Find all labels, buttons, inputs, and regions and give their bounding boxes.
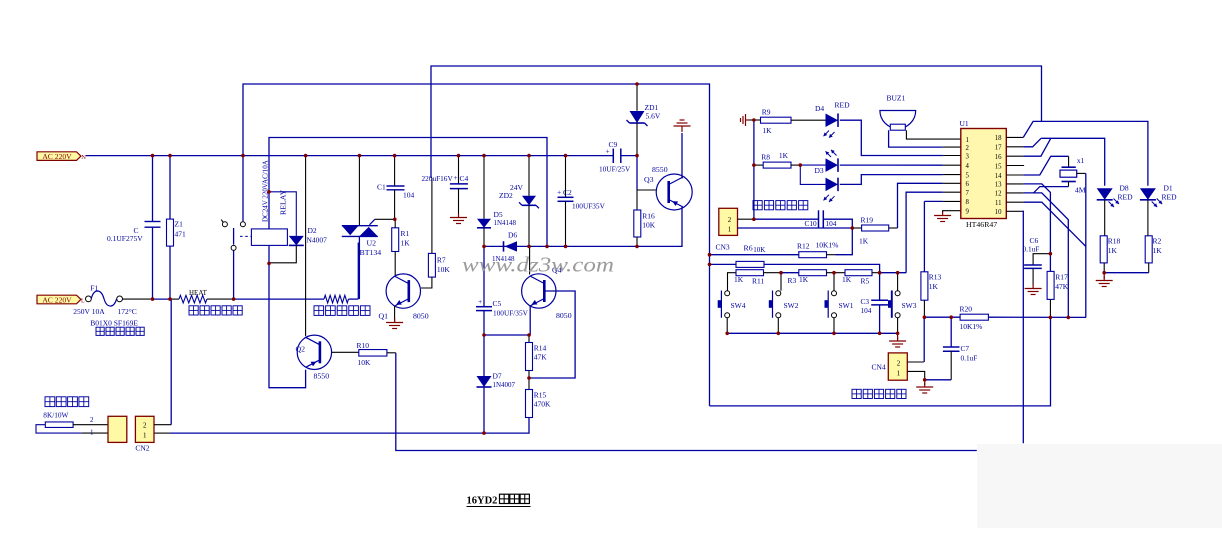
capacitor C6 0.1uF <box>1033 254 1050 265</box>
switch SW1 <box>832 291 837 296</box>
wire CN2 pin2 up to AC N <box>154 424 171 426</box>
svg-text:10K: 10K <box>642 220 656 229</box>
svg-text:4: 4 <box>966 163 970 170</box>
label install-on-pot-bottom <box>96 327 104 335</box>
wire D3b to pin5 <box>840 175 943 185</box>
svg-text:F1: F1 <box>90 284 98 293</box>
svg-text:R5: R5 <box>861 277 870 286</box>
svg-text:1K: 1K <box>1108 246 1118 255</box>
IC U1 HT46R47 <box>961 129 1007 219</box>
svg-text:1K: 1K <box>401 238 411 247</box>
resistor R18 1K <box>1104 200 1106 236</box>
svg-text:2: 2 <box>966 145 970 152</box>
svg-text:10K1%: 10K1% <box>960 322 983 331</box>
svg-text:SW4: SW4 <box>731 301 746 310</box>
svg-text:2: 2 <box>143 421 147 429</box>
transistor Q2 8550 <box>297 335 331 369</box>
svg-text:1N4007: 1N4007 <box>493 381 516 389</box>
svg-text:R17: R17 <box>1055 272 1068 281</box>
svg-text:8K/10W: 8K/10W <box>43 410 68 419</box>
svg-text:0.1uF: 0.1uF <box>961 354 978 363</box>
svg-text:R14: R14 <box>534 343 547 352</box>
svg-text:Q3: Q3 <box>644 175 654 184</box>
connector CN2 <box>135 416 154 442</box>
resistor R10 10K <box>332 351 359 353</box>
svg-text:R3: R3 <box>788 276 797 285</box>
svg-text:1: 1 <box>966 137 969 144</box>
port AC220V N (top) <box>37 152 81 161</box>
LED D8 RED <box>1097 188 1113 200</box>
svg-text:RED: RED <box>835 101 851 110</box>
svg-text:104: 104 <box>826 219 837 228</box>
resistor R2 1K <box>1147 200 1149 236</box>
svg-text:C10: C10 <box>805 219 818 228</box>
svg-text:D2: D2 <box>308 226 317 235</box>
svg-text:104: 104 <box>861 306 872 315</box>
capacitor C3 104 <box>879 273 881 301</box>
wire bottom rail y=433 <box>154 432 170 434</box>
ground below Q1 <box>394 306 396 322</box>
LED D4 RED <box>826 113 839 127</box>
svg-text:+: + <box>557 187 561 196</box>
wire R20 row y=317.2 <box>924 316 960 318</box>
svg-text:R2: R2 <box>1153 237 1162 246</box>
wire R19 to pin6 <box>889 227 898 229</box>
svg-text:13: 13 <box>995 182 1002 189</box>
svg-text:1K: 1K <box>734 275 744 284</box>
svg-text:0.1UF275V: 0.1UF275V <box>107 234 143 243</box>
svg-text:1: 1 <box>143 431 147 439</box>
capacitor C2 100UF35V <box>565 156 567 198</box>
wire loop y=406.4 right <box>710 317 1051 406</box>
svg-text:HEAT: HEAT <box>189 289 208 297</box>
resistor R14 47K <box>528 335 530 343</box>
triac U2 BT134 <box>358 156 360 226</box>
wire R6 row y=264.4 <box>710 263 737 265</box>
svg-text:R6: R6 <box>744 244 753 253</box>
transistor Q4 8050 <box>529 246 531 274</box>
wire pin10 down <box>1006 210 1022 212</box>
power ground symbol (left of R9) <box>746 119 750 121</box>
resistor body heater <box>324 295 349 303</box>
svg-text:47K: 47K <box>1055 282 1069 291</box>
svg-text:C5: C5 <box>493 299 502 308</box>
resistor R6 10K <box>736 261 764 267</box>
crystal x1 4M <box>1062 166 1076 168</box>
svg-text:HT46R47: HT46R47 <box>966 220 997 229</box>
svg-text:RED: RED <box>1162 192 1178 201</box>
svg-text:470K: 470K <box>534 399 551 408</box>
wire C9/ZD1 node down through R16 <box>636 156 638 190</box>
svg-text:1K: 1K <box>799 275 809 284</box>
svg-text:R15: R15 <box>534 390 547 399</box>
wire key row bottom y=333.3 <box>727 332 897 334</box>
capacitor C1 104 <box>394 156 396 186</box>
wire D4 to pin3 <box>840 120 943 155</box>
svg-text:Z1: Z1 <box>175 220 184 229</box>
svg-text:10K: 10K <box>753 246 765 254</box>
svg-text:D8: D8 <box>1120 183 1129 192</box>
svg-text:N: N <box>81 154 86 161</box>
svg-text:1N4148: 1N4148 <box>494 219 517 227</box>
wire top rail V+ (y=66) <box>431 66 1042 178</box>
svg-text:R13: R13 <box>929 272 942 281</box>
decorative patch <box>977 444 1222 528</box>
svg-text:C1: C1 <box>377 183 386 192</box>
resistor R7 10K <box>431 178 433 253</box>
svg-text:1K: 1K <box>842 275 852 284</box>
svg-text:172°C: 172°C <box>118 307 137 316</box>
svg-text:RED: RED <box>1118 192 1134 201</box>
svg-text:C9: C9 <box>609 140 618 149</box>
capacitor C4 220uF16V <box>458 156 460 184</box>
svg-text:0.1uF: 0.1uF <box>1023 245 1040 254</box>
svg-text:9: 9 <box>966 209 970 216</box>
svg-text:17: 17 <box>995 145 1002 152</box>
svg-text:SW2: SW2 <box>784 301 799 310</box>
transistor Q3 8550 <box>637 189 656 191</box>
svg-text:R12: R12 <box>797 241 810 250</box>
resistor R16 10K <box>636 190 638 210</box>
resistor R3 1K <box>781 272 799 274</box>
wire key row to pin7 <box>906 192 943 273</box>
svg-text:1K: 1K <box>1153 246 1163 255</box>
ground pin9 <box>943 211 961 213</box>
capacitor C 0.1UF275V <box>152 156 154 222</box>
wire AC L rail y=155.6 <box>86 155 614 157</box>
svg-text:1K: 1K <box>859 236 869 245</box>
svg-text:2: 2 <box>90 416 94 424</box>
resistor R17 47K <box>1049 254 1051 272</box>
svg-text:10K: 10K <box>358 358 372 367</box>
svg-text:7: 7 <box>966 190 970 197</box>
resistor R19 1K <box>852 227 861 229</box>
relay coil RELAY DC24V <box>251 229 287 246</box>
svg-text:L: L <box>81 299 85 305</box>
connector plug (mate) <box>108 416 127 442</box>
svg-text:C3: C3 <box>861 297 870 306</box>
resistor R12 10K1% <box>799 252 827 258</box>
svg-text:D6: D6 <box>508 230 517 239</box>
svg-text:14: 14 <box>995 173 1002 180</box>
svg-text:RELAY: RELAY <box>279 189 288 215</box>
svg-text:+: + <box>478 297 482 306</box>
wire crystal bottom to pin12 <box>1068 182 1070 187</box>
transistor Q1 8050 <box>386 274 420 308</box>
wire DC 24V net y=246.4 <box>484 207 682 246</box>
svg-text:+: + <box>454 173 458 182</box>
svg-text:1K: 1K <box>762 126 772 135</box>
wire relay DC feed y=137.5 <box>269 138 547 247</box>
svg-text:AC 220V: AC 220V <box>42 152 72 161</box>
svg-text:1: 1 <box>90 429 94 437</box>
svg-text:11: 11 <box>995 200 1002 207</box>
svg-text:R1: R1 <box>401 229 410 238</box>
svg-text:+: + <box>606 147 610 156</box>
svg-text:5: 5 <box>966 172 970 179</box>
svg-text:18: 18 <box>995 135 1002 142</box>
svg-text:8050: 8050 <box>413 312 429 321</box>
svg-text:15: 15 <box>995 163 1002 170</box>
svg-text:R10: R10 <box>357 341 370 350</box>
diode D5 1N4148 <box>483 156 485 219</box>
svg-text:250V 10A: 250V 10A <box>73 307 105 316</box>
wire gnd return y=450.5 <box>396 356 977 451</box>
diode D2 N4007 (relay flyback) <box>269 192 296 236</box>
svg-text:R19: R19 <box>861 215 874 224</box>
varistor Z1 471 <box>169 156 171 220</box>
svg-text:471: 471 <box>175 230 187 239</box>
ground below key matrix <box>897 333 899 339</box>
wire CN4 pin2 to R13 <box>907 361 924 363</box>
svg-text:SW1: SW1 <box>839 301 854 310</box>
svg-text:BUZ1: BUZ1 <box>887 94 906 103</box>
label pot-lid-sensor <box>852 389 861 398</box>
LED D1 RED <box>1140 188 1156 200</box>
label body-heater <box>314 306 324 316</box>
svg-text:CN4: CN4 <box>872 362 886 371</box>
svg-text:100UF/35V: 100UF/35V <box>493 309 529 318</box>
svg-text:10UF/25V: 10UF/25V <box>599 165 631 174</box>
svg-text:D3: D3 <box>815 166 824 175</box>
svg-text:100UF35V: 100UF35V <box>572 201 606 210</box>
wire buzzer to pin2 <box>889 130 943 147</box>
switch SW2 <box>776 291 781 296</box>
wire R8 column <box>753 120 755 219</box>
svg-text:2: 2 <box>897 359 901 367</box>
svg-text:D1: D1 <box>1164 183 1173 192</box>
wire pin18 to D1 rail <box>1006 136 1023 138</box>
svg-text:U2: U2 <box>367 238 377 247</box>
svg-text:8550: 8550 <box>314 372 330 381</box>
diode D6 1N4148 <box>503 241 505 251</box>
capacitor C9 10UF/25V <box>612 149 614 164</box>
svg-text:47K: 47K <box>534 352 548 361</box>
wire buzzer to pin1 <box>906 130 960 139</box>
svg-text:R8: R8 <box>761 152 770 161</box>
relay contact <box>242 156 244 222</box>
svg-text:4M: 4M <box>1075 185 1086 194</box>
svg-text:BT134: BT134 <box>360 248 382 257</box>
svg-text:C7: C7 <box>961 344 970 353</box>
svg-text:ZD2: ZD2 <box>499 191 513 200</box>
zener ZD2 24V <box>528 156 530 196</box>
svg-text:CN3: CN3 <box>716 243 730 252</box>
resistor R8 1K <box>754 164 763 166</box>
svg-text:2: 2 <box>728 216 732 224</box>
svg-text:Q1: Q1 <box>379 312 389 321</box>
LED D3 (dual) RED <box>800 164 825 166</box>
wire D3a to pin4 <box>840 164 943 166</box>
wire relay coil bottom to Q2 emitter <box>269 263 306 387</box>
junction dots <box>151 154 155 158</box>
svg-text:R11: R11 <box>752 277 764 286</box>
svg-text:104: 104 <box>403 191 415 200</box>
svg-text:D4: D4 <box>815 104 824 113</box>
svg-text:10K1%: 10K1% <box>816 240 839 249</box>
wire R12 row y=254.7 <box>710 254 799 256</box>
svg-text:R9: R9 <box>762 107 771 116</box>
port AC220V L (bottom) <box>37 295 81 304</box>
svg-text:5.6V: 5.6V <box>646 112 661 121</box>
svg-text:N4007: N4007 <box>307 236 328 245</box>
svg-text:1: 1 <box>728 226 732 234</box>
resistor R13 1K <box>923 201 925 271</box>
svg-text:16: 16 <box>995 154 1002 161</box>
svg-text:10: 10 <box>995 209 1002 216</box>
wire key row top y=272.7 <box>728 273 737 294</box>
resistor R9 1K <box>754 119 761 121</box>
resistor R15 470K <box>528 378 530 390</box>
wire pin16 joins D8 rail <box>1006 155 1023 157</box>
svg-text:D5: D5 <box>494 210 503 219</box>
wire pin17 to D8 rail <box>1006 146 1023 148</box>
wire R2 to R18 ground <box>1104 272 1149 274</box>
svg-text:C4: C4 <box>460 174 469 183</box>
resistor HEAT (bottom heater) <box>179 295 207 303</box>
wire crystal right down to R20 row <box>1077 172 1086 174</box>
capacitor C7 0.1uF <box>950 317 952 347</box>
resistor R20 10K1% <box>960 314 988 320</box>
svg-text:U1: U1 <box>960 119 969 128</box>
svg-text:12: 12 <box>995 191 1002 198</box>
wire pin13 to C6/R17 <box>1006 183 1023 185</box>
connector CN3 <box>719 208 738 235</box>
resistor R1 1K <box>392 228 399 252</box>
svg-text:8550: 8550 <box>652 165 668 174</box>
svg-text:CN2: CN2 <box>135 444 149 453</box>
svg-text:R7: R7 <box>437 255 446 264</box>
svg-text:D7: D7 <box>493 371 502 380</box>
svg-text:1: 1 <box>897 369 901 377</box>
svg-text:220uF16V: 220uF16V <box>422 174 454 183</box>
svg-text:8: 8 <box>966 199 970 206</box>
svg-text:6: 6 <box>966 181 970 188</box>
wire rail to D2/Q2 collector <box>305 156 307 337</box>
wire R6 to C3 column <box>764 264 880 272</box>
svg-text:8050: 8050 <box>556 311 572 320</box>
fuse F1 <box>86 296 92 302</box>
pin15 stub <box>1006 165 1024 167</box>
svg-text:R18: R18 <box>1108 237 1121 246</box>
zener ZD1 5.6V <box>636 84 638 111</box>
svg-text:16YD2: 16YD2 <box>467 496 498 507</box>
switch SW3 <box>897 273 899 291</box>
wire CN3 pin1 to R19 <box>738 227 853 229</box>
svg-text:AC 220V: AC 220V <box>42 295 72 304</box>
svg-text:10K: 10K <box>437 265 451 274</box>
wire pin14 to crystal top <box>1006 174 1023 176</box>
wire CN3 pin2 to C10 <box>738 218 754 220</box>
svg-text:R20: R20 <box>960 305 973 314</box>
capacitor C10 104 <box>818 210 820 228</box>
svg-text:3: 3 <box>966 153 970 160</box>
svg-text:C2: C2 <box>563 188 572 197</box>
wire CN4 pin1 to ground <box>907 371 924 379</box>
resistor R11 1K <box>736 270 764 276</box>
switch SW4 <box>725 291 730 296</box>
svg-text:B01X0 SF169E: B01X0 SF169E <box>90 318 138 327</box>
label bottom-plate-heater <box>189 306 198 315</box>
svg-text:Q2: Q2 <box>296 345 306 354</box>
wire AC N heater line y=299.5 <box>123 298 151 300</box>
cement resistor 8K/10W <box>45 397 55 407</box>
wire C5-R14 junction <box>484 334 529 336</box>
svg-text:1K: 1K <box>929 282 939 291</box>
resistor R5 1K <box>845 270 872 276</box>
diode D7 1N4007 <box>483 335 485 376</box>
wire pin11 long diagonal <box>1006 201 1023 203</box>
svg-text:x1: x1 <box>1077 156 1085 165</box>
svg-text:R16: R16 <box>642 211 655 220</box>
svg-text:www.dz3w.com: www.dz3w.com <box>462 253 614 277</box>
svg-text:SW3: SW3 <box>902 301 917 310</box>
wire pin12 long diagonal <box>1006 192 1023 194</box>
wire y=84 net <box>243 84 710 406</box>
svg-text:1K: 1K <box>779 151 789 160</box>
capacitor C5 100UF/35V <box>483 246 485 306</box>
wire R9 to D4 <box>791 119 826 121</box>
label pot-bottom-sensor <box>753 201 762 210</box>
flipped ground above Q3 <box>681 133 683 179</box>
connector CN4 <box>888 353 907 380</box>
